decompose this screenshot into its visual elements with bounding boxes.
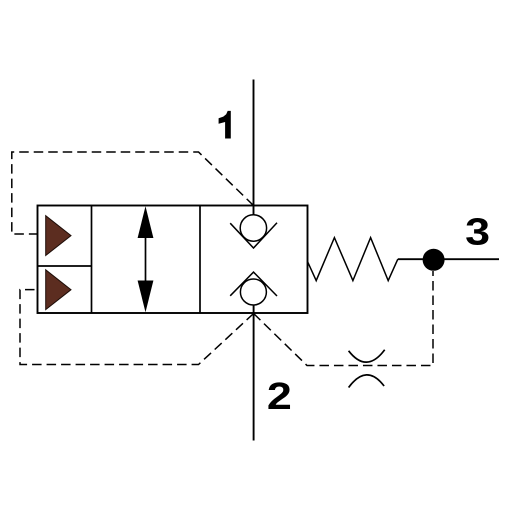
orifice arc top [349, 350, 385, 362]
pilot line top loop (dashed) [12, 152, 254, 234]
spool section divider (vertical) [199, 206, 201, 314]
orifice arc bottom [349, 375, 385, 388]
svg-text:2: 2 [267, 374, 292, 417]
arrowhead down [138, 281, 154, 313]
pilot line bottom loop (dashed) [20, 290, 254, 365]
junction node [423, 249, 445, 271]
check valve ball bottom [240, 279, 266, 305]
pilot triangle bottom [46, 270, 71, 310]
pilot section divider (vertical) [91, 206, 93, 314]
check valve ball top [240, 215, 266, 241]
valve body envelope [38, 206, 308, 314]
spring [308, 238, 398, 281]
port 1 line [253, 80, 255, 215]
port 3 line [398, 258, 499, 260]
pilot box divider (horizontal) [38, 265, 92, 267]
pilot line right branch (dashed) [254, 271, 433, 366]
arrowhead up [138, 206, 154, 238]
pilot triangle top [46, 216, 71, 256]
check valve seat bottom [230, 272, 277, 296]
check valve seat top [230, 223, 277, 248]
proportional arrow shaft [145, 234, 147, 284]
port 2 line [253, 305, 255, 441]
svg-text:3: 3 [465, 210, 490, 253]
label port 1 [219, 111, 231, 139]
